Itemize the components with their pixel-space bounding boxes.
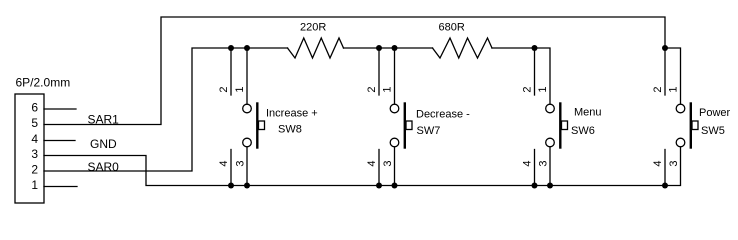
- connector J1 6P/2.0mm body: [15, 94, 44, 203]
- wire SW5 pin4 stub: [664, 150, 666, 186]
- wire SW6 pin2 stub: [534, 48, 536, 95]
- wire middle bus between resistors: [344, 47, 433, 49]
- junction dot SW8 pin1 top: [244, 45, 250, 51]
- resistor R2 680R zigzag: [433, 38, 493, 58]
- switch SW6 actuator bump: [562, 121, 568, 130]
- svg-text:GND: GND: [90, 137, 117, 151]
- svg-text:4: 4: [522, 160, 534, 166]
- pin 4 stub (GND): [44, 140, 75, 142]
- pin 6 stub: [44, 108, 76, 110]
- wire SW7 pin3: [394, 147, 396, 186]
- svg-text:1: 1: [537, 86, 549, 92]
- svg-text:SW6: SW6: [571, 125, 595, 137]
- junction dot SW5 pin2 top: [662, 45, 668, 51]
- svg-text:1: 1: [668, 86, 680, 92]
- svg-text:2: 2: [218, 86, 230, 92]
- switch SW6 actuator bar: [559, 104, 561, 148]
- svg-text:6: 6: [31, 101, 38, 115]
- svg-text:Power: Power: [699, 107, 731, 119]
- wire SW7 pin4 stub: [378, 150, 380, 186]
- svg-text:SW8: SW8: [278, 124, 302, 136]
- switch SW7 contact circles: [390, 104, 399, 113]
- junction dot SW7 pin3 bottom: [392, 183, 398, 189]
- svg-text:SW5: SW5: [701, 125, 725, 137]
- wire SW6 pin3: [549, 147, 551, 186]
- switch SW5 contact circles: [676, 104, 685, 113]
- svg-text:2: 2: [366, 86, 378, 92]
- wire middle bus to SW6: [492, 48, 550, 104]
- svg-text:Decrease -: Decrease -: [416, 109, 470, 121]
- wire SW8 pin3: [246, 147, 248, 186]
- svg-text:SW7: SW7: [417, 125, 441, 137]
- wire SAR0: pin 2 up to middle bus: [44, 48, 288, 171]
- junction dot SW6 pin4 bottom: [532, 183, 538, 189]
- wire SW7 pin1: [394, 48, 396, 104]
- svg-text:SAR0: SAR0: [88, 160, 120, 174]
- switch SW8 actuator bump: [259, 121, 265, 130]
- resistor R1 220R zigzag: [288, 38, 344, 58]
- wire SW8 pin1: [246, 48, 248, 104]
- wire SW8 pin2 stub: [230, 48, 232, 95]
- junction dot SW7 pin4 bottom: [376, 183, 382, 189]
- svg-text:220R: 220R: [300, 22, 326, 34]
- svg-text:SAR1: SAR1: [88, 113, 120, 127]
- svg-text:6P/2.0mm: 6P/2.0mm: [16, 76, 71, 90]
- svg-text:4: 4: [31, 132, 38, 146]
- svg-text:3: 3: [538, 160, 550, 166]
- junction dot SW6 pin3 bottom: [547, 183, 553, 189]
- svg-text:1: 1: [31, 178, 38, 192]
- svg-text:4: 4: [366, 160, 378, 166]
- junction dot SW5 pin4 bottom: [662, 183, 668, 189]
- wire SW7 pin2 stub: [378, 48, 380, 95]
- switch SW8 actuator bar: [256, 104, 258, 148]
- svg-text:5: 5: [31, 116, 38, 130]
- pin 1 stub: [44, 186, 77, 188]
- junction dot SW8 pin4 bottom: [228, 183, 234, 189]
- svg-text:4: 4: [652, 160, 664, 166]
- switch SW5 actuator bump: [692, 121, 698, 130]
- svg-text:680R: 680R: [439, 22, 465, 34]
- svg-text:3: 3: [668, 160, 680, 166]
- svg-text:1: 1: [234, 86, 246, 92]
- switch SW8 contact circles: [243, 104, 252, 113]
- junction dot SW6 pin2 top: [532, 45, 538, 51]
- svg-text:3: 3: [31, 147, 38, 161]
- svg-text:3: 3: [235, 160, 247, 166]
- svg-text:Menu: Menu: [574, 107, 602, 119]
- svg-text:3: 3: [382, 160, 394, 166]
- junction dot SW8 pin3 bottom: [244, 183, 250, 189]
- svg-text:4: 4: [218, 160, 230, 166]
- wire SAR1: pin 5 up and across top to SW5: [44, 17, 665, 125]
- wire SW8 pin4 stub: [230, 150, 232, 186]
- junction dot SW7 pin1 top: [392, 45, 398, 51]
- svg-text:2: 2: [31, 163, 38, 177]
- switch SW7 actuator bump: [406, 121, 412, 130]
- svg-text:Increase +: Increase +: [266, 108, 318, 120]
- junction dot SW7 pin2 top: [376, 45, 382, 51]
- wire SW5 pin2 stub: [664, 48, 666, 95]
- wire SW6 pin4 stub: [534, 150, 536, 186]
- svg-text:2: 2: [652, 86, 664, 92]
- svg-text:2: 2: [522, 86, 534, 92]
- junction dot SW8 pin2 top: [228, 45, 234, 51]
- switch SW7 actuator bar: [404, 104, 406, 148]
- svg-text:1: 1: [382, 86, 394, 92]
- switch SW5 actuator bar: [690, 104, 692, 148]
- switch SW6 contact circles: [546, 104, 555, 113]
- wire common: pin 3 down and across bottom to SW5 pin3: [44, 147, 681, 186]
- wire SW5 pin1 branch: [665, 48, 681, 104]
